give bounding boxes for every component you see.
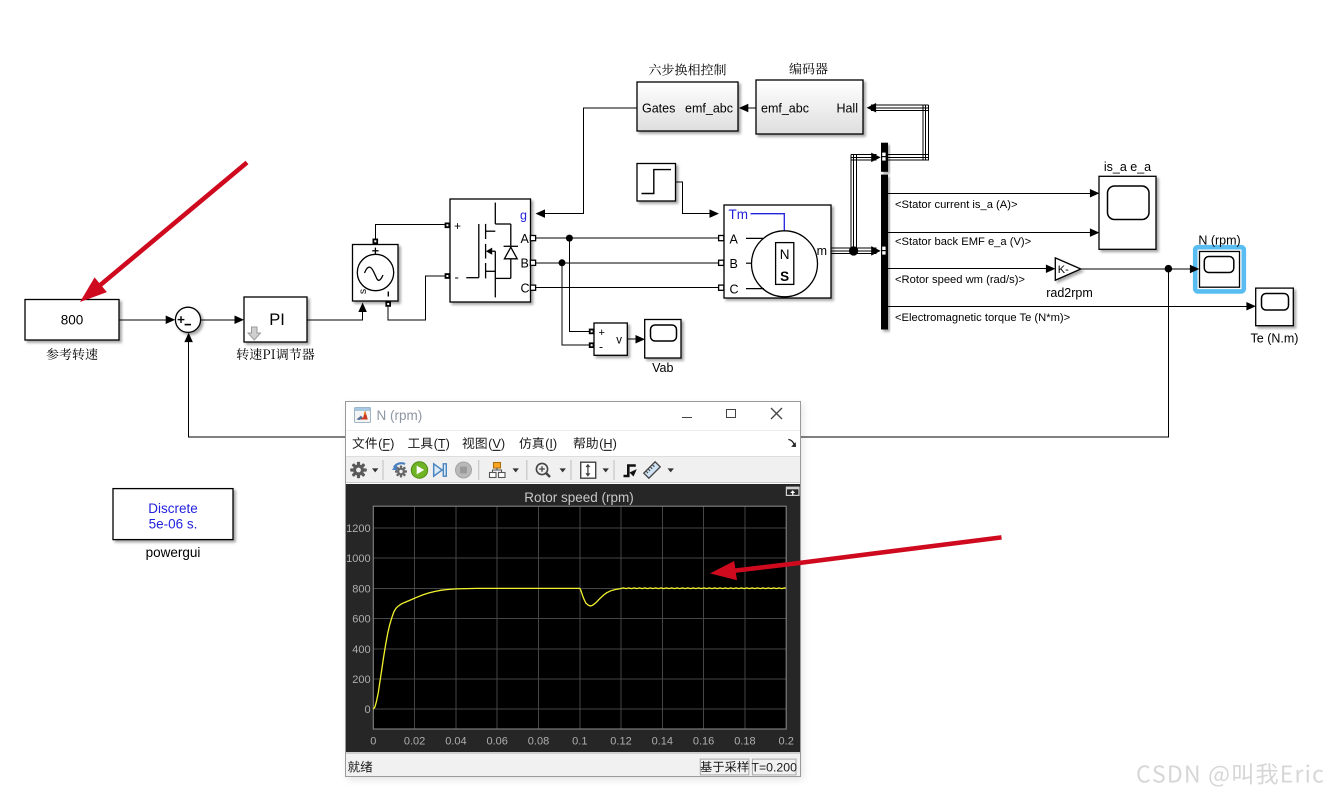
svg-text:400: 400	[352, 644, 370, 656]
six-step commutation control subsystem	[637, 64, 738, 132]
svg-text:K-: K-	[1058, 264, 1069, 276]
svg-text:0.08: 0.08	[527, 736, 548, 748]
signal: rotor speed to gain	[888, 268, 1051, 270]
svg-text:Vab: Vab	[652, 361, 673, 375]
svg-text:s: s	[357, 289, 369, 294]
bus wire: motor m to bus selector	[831, 248, 877, 254]
junction on phase B	[559, 259, 566, 266]
wire: six-step Gates to converter g	[540, 108, 637, 214]
svg-text:B: B	[521, 257, 529, 271]
scope Te (N.m)	[1251, 288, 1299, 345]
svg-text:PI: PI	[269, 311, 285, 329]
gain rad2rpm	[1046, 258, 1093, 300]
bus wire: hall selector to encoder Hall input	[871, 105, 928, 160]
encoder subsystem	[756, 63, 863, 135]
svg-text:Te (N.m): Te (N.m)	[1251, 332, 1299, 346]
wire: phase A tap to voltmeter plus	[569, 238, 589, 331]
svg-text:0.02: 0.02	[403, 736, 424, 748]
svg-text:0.18: 0.18	[734, 736, 755, 748]
signal: electromagnetic torque to scope Te	[888, 305, 1252, 307]
signal: stator current to scope	[888, 192, 1095, 194]
svg-text:800: 800	[61, 313, 84, 328]
wire: source plus to converter	[375, 225, 444, 239]
junction on phase A	[566, 235, 573, 242]
svg-text:g: g	[520, 209, 527, 223]
wire: converter C to motor C	[536, 287, 719, 289]
svg-text:A: A	[730, 232, 739, 246]
svg-text:1200: 1200	[346, 523, 370, 535]
svg-text:0: 0	[364, 704, 370, 716]
svg-text:emf_abc: emf_abc	[761, 101, 809, 115]
svg-text:(I): (I)	[545, 436, 557, 451]
svg-text:Rotor speed (rpm): Rotor speed (rpm)	[524, 490, 634, 505]
svg-text:0: 0	[370, 736, 376, 748]
wire: sum to PI	[201, 319, 240, 321]
wire: converter A to motor A	[536, 237, 719, 239]
feedback wire: speed to sum	[189, 269, 1169, 437]
voltage measurement Vab	[589, 323, 628, 355]
junction rotor speed feedback	[1165, 265, 1173, 273]
universal bridge converter (MOSFET)	[445, 199, 536, 302]
svg-text:<Rotor speed wm (rad/s)>: <Rotor speed wm (rad/s)>	[895, 274, 1025, 286]
svg-text:T=0.200: T=0.200	[751, 760, 797, 774]
svg-text:0.16: 0.16	[692, 736, 713, 748]
svg-text:(F): (F)	[378, 436, 394, 451]
svg-text:(H): (H)	[599, 436, 617, 451]
controlled voltage source	[353, 239, 399, 307]
wire: step to motor Tm	[676, 182, 715, 214]
svg-text:+: +	[599, 327, 605, 339]
BLDC motor block	[719, 205, 831, 298]
signal: stator back EMF to scope	[888, 232, 1095, 234]
PI controller block	[237, 297, 315, 360]
svg-text:Gates: Gates	[642, 101, 675, 115]
bus selector (motor measurements)	[881, 175, 888, 330]
scope window N (rpm)	[345, 401, 801, 777]
svg-text:C: C	[730, 283, 739, 297]
svg-text:rad2rpm: rad2rpm	[1046, 286, 1093, 300]
wire: phase B tap to voltmeter minus	[562, 263, 589, 345]
bus wire: junction up to hall bus selector	[851, 155, 877, 251]
svg-text:0.1: 0.1	[572, 736, 587, 748]
scope N (rpm), selected	[1195, 233, 1244, 291]
svg-text:800: 800	[352, 583, 370, 595]
svg-text:(T): (T)	[433, 436, 449, 451]
svg-text:B: B	[730, 257, 738, 271]
svg-text:-: -	[455, 270, 459, 285]
svg-text:C: C	[521, 281, 530, 295]
powergui block	[113, 489, 233, 560]
svg-text:0.2: 0.2	[778, 736, 793, 748]
svg-text:v: v	[616, 334, 622, 346]
svg-text:5e-06 s.: 5e-06 s.	[149, 517, 198, 532]
signal: gain to scope N	[1081, 268, 1195, 270]
svg-text:is_a e_a: is_a e_a	[1104, 160, 1151, 174]
red annotation arrow 1	[80, 163, 247, 303]
constant block 800 (reference speed)	[25, 300, 119, 361]
sum junction (speed error)	[175, 307, 200, 332]
svg-text:Hall: Hall	[836, 101, 858, 115]
svg-text:-: -	[599, 340, 603, 354]
svg-text:m: m	[817, 244, 827, 258]
svg-text:1000: 1000	[346, 553, 370, 565]
wire: converter B to motor B	[536, 262, 719, 264]
svg-text:<Stator current is_a (A)>: <Stator current is_a (A)>	[895, 199, 1018, 211]
svg-text:N: N	[780, 247, 790, 262]
step source block (load torque)	[637, 164, 676, 202]
bus selector (hall signals)	[881, 143, 888, 172]
svg-text:200: 200	[352, 674, 370, 686]
scope is_a e_a	[1099, 160, 1156, 250]
svg-text:(V): (V)	[488, 436, 505, 451]
svg-text:A: A	[521, 232, 530, 246]
svg-text:Tm: Tm	[729, 207, 749, 222]
svg-text:powergui: powergui	[146, 545, 201, 560]
wire: encoder emf_abc to six-step	[743, 107, 756, 109]
svg-text:<Electromagnetic torque Te (N*: <Electromagnetic torque Te (N*m)>	[895, 312, 1070, 324]
wire: 800 to sum	[119, 319, 171, 321]
wire: source minus to converter	[388, 276, 444, 320]
svg-text:S: S	[780, 269, 789, 284]
svg-text:N (rpm): N (rpm)	[1198, 233, 1240, 247]
svg-text:Discrete: Discrete	[148, 501, 198, 516]
wire: PI to source s input	[307, 310, 363, 320]
svg-text:<Stator back EMF e_a (V)>: <Stator back EMF e_a (V)>	[895, 236, 1031, 248]
svg-text:600: 600	[352, 614, 370, 626]
svg-text:0.14: 0.14	[651, 736, 672, 748]
svg-text:0.04: 0.04	[445, 736, 466, 748]
wire: voltmeter to scope Vab	[627, 338, 640, 340]
svg-text:0.12: 0.12	[610, 736, 631, 748]
bus junction	[849, 246, 858, 255]
svg-text:emf_abc: emf_abc	[685, 101, 733, 115]
svg-text:0.06: 0.06	[486, 736, 507, 748]
svg-text:+: +	[454, 219, 461, 233]
scope Vab	[645, 320, 681, 376]
